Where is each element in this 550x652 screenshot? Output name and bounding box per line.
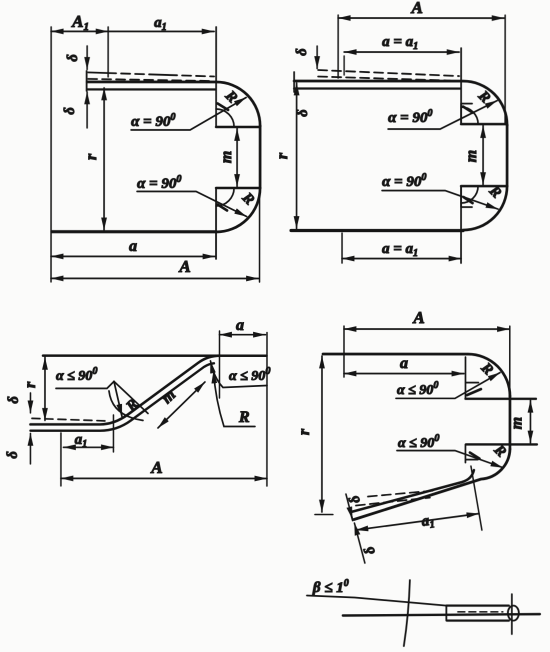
svg-text:δ: δ xyxy=(295,109,311,116)
svg-text:δ: δ xyxy=(6,396,22,403)
svg-text:β ≤ 10: β ≤ 10 xyxy=(312,578,349,596)
dimension r xyxy=(44,357,46,420)
svg-text:a = a1: a = a1 xyxy=(382,34,418,52)
dashed sprung line 2 xyxy=(318,77,450,81)
svg-text:α ≤ 900: α ≤ 900 xyxy=(397,380,438,398)
svg-text:α ≤ 900: α ≤ 900 xyxy=(398,433,439,451)
extension a=a1 bottom left xyxy=(341,233,343,263)
hatch lower tab xyxy=(470,453,480,459)
clamp block left end xyxy=(445,606,447,621)
dimension m xyxy=(529,400,531,443)
svg-text:δ: δ xyxy=(346,493,364,505)
svg-text:m: m xyxy=(463,150,480,162)
extension line mid xyxy=(107,27,109,77)
bottom line xyxy=(291,229,463,232)
dimension m xyxy=(236,128,238,186)
hatch upper tab xyxy=(467,389,481,395)
strip upper face xyxy=(30,356,220,425)
top line xyxy=(43,354,266,357)
dimension a=a1 bottom xyxy=(342,258,461,260)
extension a1 right xyxy=(112,415,114,452)
extension A right xyxy=(509,326,511,395)
r extension tick xyxy=(315,514,333,516)
centre dashes xyxy=(458,611,503,613)
arm top face with top-right bend xyxy=(87,82,260,126)
svg-text:δ: δ xyxy=(65,54,81,61)
svg-text:a1: a1 xyxy=(154,15,167,33)
upper tab line xyxy=(216,126,259,129)
lower tab edge + extension for a xyxy=(215,188,217,259)
dimension delta lower xyxy=(86,92,88,128)
angle leg right xyxy=(114,381,148,413)
dimension r xyxy=(296,83,298,228)
dimension r xyxy=(321,356,323,512)
upper tab end square xyxy=(465,357,478,399)
lower tab line / m extension bottom xyxy=(466,443,537,445)
hatch lower tab xyxy=(218,204,228,210)
svg-text:R: R xyxy=(123,396,142,415)
clamp end line xyxy=(511,594,513,634)
dimension a1 xyxy=(108,30,214,32)
clamp block top xyxy=(446,604,508,606)
svg-text:r: r xyxy=(83,153,100,160)
hatch upper tab xyxy=(218,103,229,110)
angle arc xyxy=(109,391,143,421)
svg-text:A1: A1 xyxy=(71,12,89,33)
extension a1 right xyxy=(471,466,482,530)
svg-text:δ: δ xyxy=(5,451,21,458)
dimension delta upper xyxy=(29,393,31,413)
svg-text:a1: a1 xyxy=(421,512,436,532)
dashed sprung line 1 xyxy=(88,72,214,76)
svg-text:α = 900: α = 900 xyxy=(382,172,426,190)
dimension a xyxy=(51,255,215,257)
svg-text:α = 900: α = 900 xyxy=(388,108,432,126)
extension right lower xyxy=(259,192,261,282)
extension a right / tab edge xyxy=(460,48,462,124)
upper tab line / m extension top xyxy=(465,398,536,400)
right edge xyxy=(506,125,509,186)
right edge xyxy=(259,126,262,188)
svg-text:A: A xyxy=(150,458,162,477)
arm dashed line xyxy=(32,418,106,421)
dimension a xyxy=(344,373,464,375)
svg-text:α = 900: α = 900 xyxy=(131,112,175,130)
top line with top-right bend xyxy=(323,354,510,396)
svg-text:r: r xyxy=(22,381,39,388)
svg-text:δ: δ xyxy=(62,107,78,114)
extension A left xyxy=(337,15,339,78)
svg-text:m: m xyxy=(508,417,525,429)
angle leg with arrow xyxy=(114,381,122,416)
svg-text:a: a xyxy=(400,355,408,372)
svg-text:A: A xyxy=(178,257,190,276)
bottom line xyxy=(52,230,216,233)
dimension A xyxy=(338,17,504,19)
svg-text:α = 900: α = 900 xyxy=(137,174,181,192)
dimension r xyxy=(103,88,105,230)
svg-text:α ≤ 900: α ≤ 900 xyxy=(229,366,270,384)
extension a=a1 bottom right xyxy=(460,186,462,263)
svg-text:a: a xyxy=(129,238,137,255)
arm end cap xyxy=(293,72,295,92)
extension line right / tab edge xyxy=(215,27,217,127)
clamp block bottom xyxy=(447,619,509,621)
dimension a=a1 top xyxy=(343,56,345,75)
dimension delta lower xyxy=(29,433,31,463)
extension right xyxy=(266,332,268,485)
lower tab end square xyxy=(461,186,472,207)
sloped dashed line 2 xyxy=(356,498,430,506)
svg-text:δ: δ xyxy=(294,48,310,55)
bottom-right bend xyxy=(216,188,260,232)
dimension delta lower / a1 extension left xyxy=(354,523,365,563)
bottom-right bend xyxy=(463,186,507,230)
hatch upper tab xyxy=(463,107,473,113)
svg-text:r: r xyxy=(274,152,291,159)
dimension delta upper xyxy=(316,46,318,68)
svg-text:m: m xyxy=(218,151,235,163)
upper tab end square xyxy=(461,104,472,125)
dimension m xyxy=(482,126,484,185)
dimension delta upper xyxy=(86,46,88,69)
svg-text:A: A xyxy=(412,308,424,327)
extension A left xyxy=(343,326,345,377)
svg-text:δ: δ xyxy=(361,544,379,556)
dimension A xyxy=(51,277,258,279)
lower tab end square xyxy=(465,444,478,462)
svg-text:R: R xyxy=(238,189,257,208)
lower tab inner radius xyxy=(216,188,234,206)
dimension m xyxy=(158,382,205,428)
strip end cap xyxy=(350,511,353,521)
svg-text:α ≤ 900: α ≤ 900 xyxy=(56,366,97,384)
dimension A xyxy=(344,328,509,330)
svg-text:R: R xyxy=(238,409,250,426)
clamp block round end xyxy=(508,606,519,621)
extension A right / right edge upper xyxy=(504,15,506,124)
lower tab line xyxy=(461,185,506,188)
extension a left xyxy=(218,331,220,398)
sloped inner face xyxy=(351,470,474,512)
upper tab inner radius xyxy=(461,107,478,124)
dashed sprung line 1 xyxy=(318,70,459,76)
arm bottom face xyxy=(87,88,215,90)
dimension A xyxy=(61,477,267,479)
arm end cap xyxy=(86,71,88,91)
beta leader / upper wedge line xyxy=(307,596,446,606)
dashed sprung line 2 xyxy=(88,79,210,81)
svg-text:a: a xyxy=(236,317,244,334)
arm bottom face xyxy=(294,87,460,89)
main line xyxy=(343,614,540,616)
upper tab line xyxy=(461,123,506,126)
dimension delta upper sloped xyxy=(346,494,353,519)
upper tab inner radius xyxy=(216,109,234,127)
svg-text:A: A xyxy=(410,0,422,17)
hatch lower tab xyxy=(464,197,473,203)
strip lower face xyxy=(30,363,214,431)
lower tab line xyxy=(216,187,260,190)
svg-text:a1: a1 xyxy=(75,432,88,450)
svg-text:a = a1: a = a1 xyxy=(382,241,418,259)
arm top face with top-right bend xyxy=(294,81,507,125)
dimension a1 xyxy=(63,446,113,448)
dimension a1 xyxy=(356,514,479,531)
svg-text:r: r xyxy=(296,428,313,435)
right edge xyxy=(509,396,512,449)
bottom-right bend and sloped outer face xyxy=(354,449,510,520)
extension line left xyxy=(50,27,52,282)
angle arc xyxy=(404,580,410,646)
lower tab inner radius xyxy=(461,186,478,203)
extension a1 left / A left xyxy=(60,433,62,486)
sloped dashed line 1 xyxy=(368,491,434,497)
dimension A1 xyxy=(51,30,108,32)
dimension a top xyxy=(219,334,265,336)
